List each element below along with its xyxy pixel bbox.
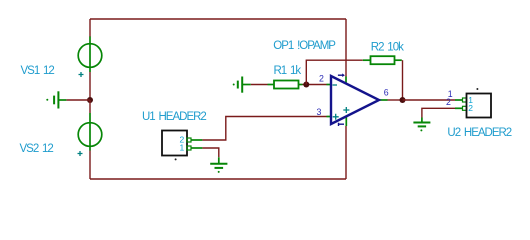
wire: feedback riser from junction up to R2 — [306, 60, 363, 84]
ground G2 (below U1) — [210, 157, 227, 173]
connector U2 — [455, 88, 491, 118]
wire: left rail top segment into VS1 — [89, 19, 91, 37]
junction node at inverting input — [303, 82, 309, 88]
svg-text:U2 HEADER2: U2 HEADER2 — [447, 127, 511, 139]
resistor R1 — [268, 81, 303, 89]
svg-text:VS2 12: VS2 12 — [20, 143, 54, 155]
svg-text:R2 10k: R2 10k — [371, 41, 404, 53]
wire: negative supply rail from op-amp bottom — [345, 126, 347, 179]
svg-text:U1 HEADER2: U1 HEADER2 — [142, 111, 206, 123]
wire: positive supply rail into op-amp top — [345, 19, 347, 77]
svg-text:2: 2 — [446, 97, 451, 107]
wire: op-amp output to output node — [388, 99, 403, 101]
svg-text:3: 3 — [317, 107, 322, 117]
wire: output node to U2 pin1 — [403, 99, 456, 101]
svg-text:VS1 12: VS1 12 — [21, 65, 55, 77]
wire: U2 pin2 to ground G4 — [422, 108, 463, 117]
connector U1 — [162, 131, 202, 161]
svg-text:OP1 !OPAMP: OP1 !OPAMP — [273, 40, 336, 52]
svg-text:2: 2 — [319, 74, 324, 84]
wire: U1 pin2 to op-amp noninverting input — [202, 117, 326, 141]
svg-text:R1 1k: R1 1k — [274, 65, 302, 77]
junction node at VS midpoint — [87, 97, 93, 103]
wire: VS2 to bottom rail — [89, 151, 91, 180]
wire: R2 right lead down to output node — [402, 60, 404, 100]
ground G3 (left of R1) — [233, 77, 251, 93]
wire: top rail from left loop corner to right supply rail — [90, 18, 346, 20]
op-amp OP1 — [327, 73, 388, 126]
wire: junction to VS2 — [89, 100, 91, 113]
voltage source VS2 — [78, 113, 102, 156]
svg-text:1: 1 — [180, 143, 185, 153]
wire: between VS1 and junction node — [89, 72, 91, 100]
ground G4 (below U2) — [413, 118, 430, 132]
ground G1 (left of sources) — [46, 91, 66, 108]
svg-text:2: 2 — [468, 103, 473, 113]
svg-text:6: 6 — [384, 88, 389, 98]
junction node at output — [400, 97, 406, 103]
wire: ground G3 to R1 — [251, 84, 268, 86]
wire: bottom rail — [90, 178, 346, 180]
wire: U1 pin1 to ground G2 — [202, 148, 218, 157]
wire: R1 to inverting input node — [303, 84, 327, 86]
resistor R2 — [363, 56, 402, 64]
wire: junction to ground G1 — [66, 99, 90, 101]
voltage source VS1 — [78, 37, 102, 78]
